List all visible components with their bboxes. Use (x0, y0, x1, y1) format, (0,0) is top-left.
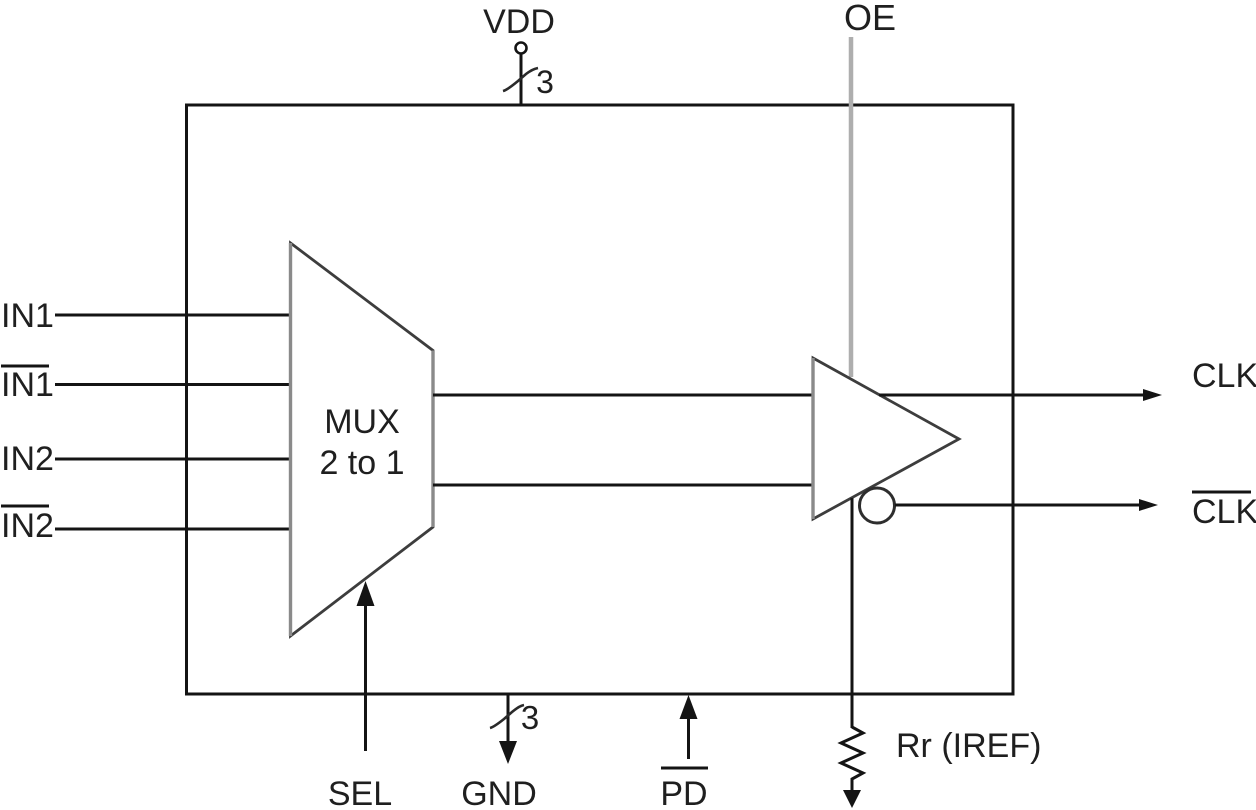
svg-text:CLK: CLK (1192, 357, 1256, 395)
svg-text:3: 3 (536, 64, 554, 100)
svg-text:IN1: IN1 (1, 297, 54, 335)
svg-text:IN2: IN2 (1, 507, 54, 545)
svg-text:PD: PD (660, 775, 707, 810)
svg-text:CLK: CLK (1192, 493, 1256, 531)
svg-text:Rr (IREF): Rr (IREF) (896, 727, 1041, 765)
svg-text:GND: GND (461, 775, 537, 810)
svg-text:SEL: SEL (328, 775, 392, 810)
svg-text:VDD: VDD (483, 3, 555, 41)
svg-text:IN1: IN1 (1, 366, 54, 404)
svg-text:MUX: MUX (324, 403, 400, 441)
svg-text:OE: OE (844, 0, 896, 38)
svg-text:IN2: IN2 (1, 440, 54, 478)
svg-text:3: 3 (521, 699, 539, 736)
svg-text:2 to 1: 2 to 1 (319, 444, 404, 482)
